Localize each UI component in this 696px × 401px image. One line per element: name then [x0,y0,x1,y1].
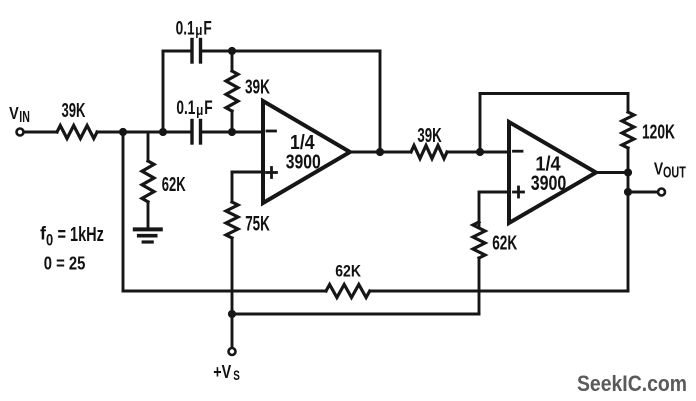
resistor R4 75K (vertical) [226,202,238,238]
svg-text:+V: +V [213,362,231,382]
svg-text:3900: 3900 [531,171,567,195]
resistor R7 62K (horizontal, main feedback) [326,285,370,298]
wire: node D to R2 [231,51,234,71]
op-amp U2 minus sign [514,150,523,153]
wire: U2 feedback top rail [480,92,628,95]
svg-text:39K: 39K [245,75,270,99]
op-amp U2 triangle [509,122,596,223]
node H junction dot (VOUT tap) [624,188,632,196]
node F junction dot [476,148,484,156]
capacitor C1 0.1uF right plate [199,40,202,63]
wire: top rail down to U1 output node [379,51,382,152]
svg-text:μ: μ [195,22,202,38]
svg-text:0.1: 0.1 [176,97,195,119]
wire: R8 up to U2 plus input [479,192,509,226]
op-amp U1 minus sign [267,130,276,133]
svg-text:S: S [233,367,240,383]
svg-text:39K: 39K [417,124,442,146]
capacitor C1 0.1uF left plate [190,40,193,63]
node B junction dot [159,128,167,136]
op-amp U1 plus sign [267,168,277,178]
svg-text:IN: IN [19,108,30,126]
node C junction dot [228,128,236,136]
resistor R8 62K (vertical, U2 bias) [473,222,485,258]
svg-text:F: F [203,17,211,39]
wire: R5 to U2 minus input [447,151,509,154]
label VIN [9,105,30,126]
capacitor C2 0.1uF right plate [199,121,202,144]
svg-text:V: V [654,160,664,179]
svg-text:75K: 75K [245,211,270,235]
svg-text:0 = 25: 0 = 25 [44,253,86,274]
wire: rail down to R6 [627,94,630,113]
svg-text:62K: 62K [492,231,517,255]
svg-text:SeekIC.com: SeekIC.com [577,372,687,396]
note f0 = 1kHz [40,223,104,250]
resistor R3 62K (to ground) wire from node [147,132,150,161]
resistor R6 120K (vertical feedback) [622,112,634,148]
svg-text:V: V [9,105,19,124]
wire: R4 down to VS node (crosses feedback wire) [231,238,234,348]
node A junction dot [119,128,127,136]
wire: C2 to op-amp U1 minus input [202,131,263,134]
wire: bottom feedback right segment [370,290,628,293]
node D junction dot (top of 39K vertical) [228,47,236,55]
capacitor C2 0.1uF left plate [190,121,193,144]
wire: U1 output to node E [350,151,411,154]
terminal +VS [229,348,236,355]
resistor R2 39K (vertical feedback) [226,71,238,111]
svg-text:0.1: 0.1 [176,17,195,39]
wire: down to R4 [231,172,234,202]
node G junction dot [624,168,632,176]
wire: R6 to U2 output node [627,148,630,173]
label +VS [213,362,240,383]
ground symbol [135,229,161,242]
terminal VOUT [658,189,665,196]
resistor R3 62K (vertical) [142,161,154,202]
wire: bottom feedback left segment [123,290,326,293]
wire: R2 to node C [231,111,234,132]
label C1 value 0.1uF [176,17,212,39]
label C2 value 0.1uF [176,97,212,119]
wire: U2 output to node G [596,171,628,174]
svg-text:62K: 62K [162,173,186,196]
wire: top rail left segment [163,50,191,53]
svg-text:F: F [204,97,212,119]
wire: U1 plus input to 75K branch [232,171,263,174]
svg-text:3900: 3900 [286,149,321,173]
label VOUT [654,160,686,181]
svg-text:0: 0 [46,232,53,250]
wire: VS rail up to R8 (crosses feedback wire) [478,258,481,314]
wire: node B up to top feedback rail [162,51,165,132]
wire: VIN to R1 [24,131,57,134]
svg-text:120K: 120K [642,120,675,144]
svg-text:= 1kHz: = 1kHz [58,223,104,246]
node VS junction dot [228,310,236,318]
svg-text:62K: 62K [335,263,361,281]
wire: node H to VOUT terminal [628,191,658,194]
op-amp U2 plus sign [514,187,524,197]
wire: R1 to node A [97,131,191,134]
wire: VS rail horizontal [232,313,479,316]
input terminal VIN [17,129,24,136]
wire: feedback up to node A [122,132,125,291]
wire: node G down the right side to bottom feedback [627,173,630,292]
node E junction dot [376,148,384,156]
wire: node F up to U2 feedback rail [479,94,482,153]
resistor R5 39K (horizontal, interstage) [411,146,447,159]
svg-text:OUT: OUT [663,163,686,180]
wire: R3 to ground [147,202,150,228]
resistor R1 39K (horizontal) [57,126,97,139]
svg-text:μ: μ [196,102,203,118]
wire: top rail right segment [202,50,380,53]
svg-text:39K: 39K [62,98,86,122]
op-amp U1 triangle [263,101,350,203]
